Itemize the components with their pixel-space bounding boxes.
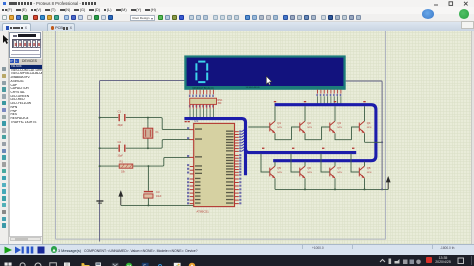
svg-text:Q6: Q6 [307, 166, 311, 170]
power terminal right [387, 182, 389, 189]
net labels [262, 101, 366, 149]
MCU left pins [190, 130, 194, 174]
bus entries P0 [242, 130, 245, 152]
svg-text:30pF: 30pF [118, 124, 124, 127]
svg-text:14-SEG-BLUE: 14-SEG-BLUE [246, 87, 261, 89]
resistor R1 [100, 165, 119, 167]
MCU P1 pins [190, 179, 194, 204]
display left pins [190, 90, 213, 95]
svg-text:NPN: NPN [277, 172, 282, 174]
transistor Q8 [359, 166, 364, 178]
transistor Q2 [300, 121, 305, 133]
ground [96, 200, 103, 202]
RN1 lower pins [189, 105, 214, 107]
net label specks below bus B [185, 121, 190, 122]
svg-text:NPN: NPN [367, 172, 372, 174]
svg-text:NPN: NPN [307, 127, 312, 129]
MCU right pins P0 P2 P3 [235, 132, 239, 204]
bus B display-left to MCU, vertical A, middle bus M1 [184, 119, 245, 176]
svg-text:Q7: Q7 [337, 166, 341, 170]
svg-text:e: e [158, 261, 163, 266]
transistor Q3 [330, 121, 335, 133]
svg-text:NPN: NPN [307, 172, 312, 174]
svg-text:X1: X1 [155, 130, 159, 134]
mouse cursor [266, 76, 272, 85]
svg-text:10k: 10k [121, 171, 126, 174]
svg-text:Q5: Q5 [277, 166, 281, 170]
svg-text:NPN: NPN [277, 127, 282, 129]
wires RN1 to bus [190, 109, 213, 117]
svg-text:MINIDIGIT.BLUE.CC: MINIDIGIT.BLUE.CC [193, 88, 215, 90]
svg-text:Q8: Q8 [367, 166, 371, 170]
svg-text:U1: U1 [194, 119, 198, 123]
svg-text:NPN: NPN [367, 127, 372, 129]
svg-text:Q4: Q4 [367, 121, 371, 125]
crystal X1 [147, 118, 149, 149]
svg-text:R1: R1 [120, 160, 124, 164]
MCU U1 AT89C51 [194, 123, 235, 206]
bus T top loop, right vertical V3, middle bus M2 [273, 105, 376, 161]
top row emitter ladder [275, 133, 292, 140]
transistor Q6 [300, 166, 305, 178]
svg-text:Q3: Q3 [337, 121, 341, 125]
svg-text:C3: C3 [156, 190, 160, 194]
digit 0 [196, 62, 207, 83]
wire display right common [346, 81, 382, 189]
power terminal left [120, 196, 122, 205]
transistor Q4 [359, 121, 364, 133]
display right pins [318, 90, 341, 94]
svg-text:Q1: Q1 [277, 121, 281, 125]
wire display left to ground rail [100, 81, 185, 242]
top row collector wires [274, 106, 276, 121]
emitter rail [274, 178, 276, 189]
svg-text:NPN: NPN [337, 127, 342, 129]
transistor Q7 [330, 166, 335, 178]
bottom row collector wires [274, 162, 276, 167]
top row base wires [248, 126, 269, 128]
svg-text:C2: C2 [118, 140, 122, 144]
svg-text:300: 300 [218, 103, 223, 105]
wires display to top bus [318, 96, 341, 103]
bottom row base risers from bus M1 [261, 154, 270, 172]
svg-text:RN1: RN1 [218, 99, 224, 102]
svg-text:30pF: 30pF [118, 154, 124, 157]
capacitor C3 [147, 166, 149, 191]
svg-text:AT89C51: AT89C51 [196, 209, 209, 213]
capacitor C2 [100, 147, 119, 149]
wire bottom row [121, 204, 193, 206]
sheet border [56, 31, 386, 240]
svg-text:Q2: Q2 [307, 121, 311, 125]
svg-text:C1: C1 [118, 110, 122, 114]
resistor pack RN1 [190, 98, 217, 104]
svg-text:10uF: 10uF [156, 195, 162, 198]
svg-text:NPN: NPN [337, 172, 342, 174]
display DS1 7SEG-MPX6-CA-BLUE [184, 55, 345, 89]
transistor Q1 [270, 121, 275, 133]
transistor Q5 [270, 166, 275, 178]
capacitor C1 [100, 117, 119, 119]
